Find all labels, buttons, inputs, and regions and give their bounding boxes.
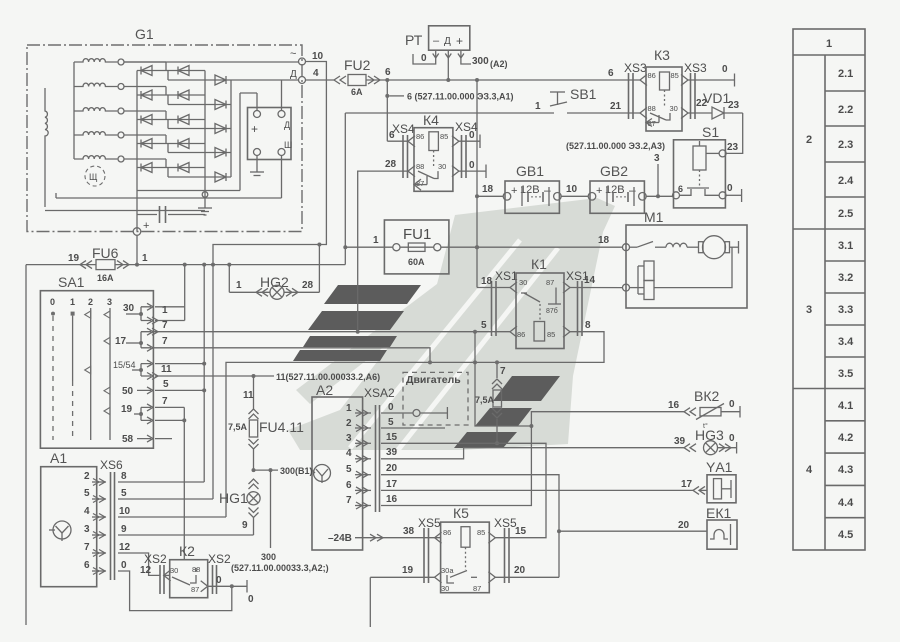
svg-text:Щ: Щ [89, 172, 98, 182]
svg-text:18: 18 [481, 276, 493, 287]
A1 row 3 [84, 524, 254, 539]
A1 row 4 [84, 506, 226, 521]
svg-text:12В: 12В [520, 184, 540, 196]
svg-text:4.4: 4.4 [838, 497, 854, 509]
svg-text:S1: S1 [702, 124, 719, 140]
svg-text:0: 0 [421, 53, 427, 64]
svg-text:10: 10 [566, 184, 578, 195]
svg-text:XS1: XS1 [495, 269, 518, 283]
svg-text:XSА2: XSА2 [364, 386, 395, 400]
stripe B1 [493, 376, 560, 401]
A2 row 4 [346, 447, 398, 462]
svg-text:XS2: XS2 [144, 552, 167, 566]
K4 86 wire [387, 130, 408, 141]
svg-text:–: – [629, 183, 636, 197]
svg-text:А1: А1 [50, 450, 67, 466]
svg-text:4: 4 [346, 448, 352, 459]
wire 39 row4 to HG3 [381, 436, 686, 459]
wire HG2 left branch [228, 265, 230, 293]
svg-text:6: 6 [389, 130, 395, 141]
svg-text:3.2: 3.2 [838, 272, 853, 284]
svg-text:19: 19 [121, 404, 133, 415]
svg-text:+: + [511, 185, 517, 197]
svg-text:К3: К3 [654, 47, 670, 63]
svg-text:87б: 87б [546, 307, 558, 315]
svg-text:Двигатель: Двигатель [406, 374, 461, 386]
svg-text:7: 7 [162, 336, 168, 347]
svg-text:12: 12 [140, 565, 152, 576]
svg-text:87: 87 [546, 278, 554, 287]
wire 300 down [231, 470, 329, 573]
svg-text:15: 15 [386, 432, 398, 443]
watermark stroke second [296, 281, 452, 404]
svg-text:85: 85 [440, 132, 448, 141]
A2 row 3 [346, 432, 398, 447]
svg-text:5: 5 [388, 417, 394, 428]
svg-text:20: 20 [386, 463, 398, 474]
svg-text:5: 5 [346, 464, 352, 475]
wire SA1-58 stub [155, 438, 172, 440]
svg-text:7: 7 [84, 542, 90, 553]
svg-text:6А: 6А [351, 87, 363, 97]
svg-text:30: 30 [170, 566, 178, 575]
svg-text:17: 17 [386, 479, 398, 490]
A2 row 5 [346, 463, 398, 478]
svg-text:А2: А2 [316, 382, 333, 398]
connector XS5 right [494, 516, 517, 583]
svg-text:2: 2 [346, 418, 352, 429]
G1 plus terminal [133, 220, 149, 235]
svg-text:20: 20 [678, 520, 690, 531]
svg-text:SB1: SB1 [570, 86, 597, 102]
svg-text:+: + [251, 122, 258, 136]
wire 19 to K5 [370, 565, 434, 627]
glow plug EK1 [706, 505, 737, 549]
svg-text:17: 17 [681, 479, 693, 490]
SA1 terminal 17 [115, 328, 158, 351]
svg-text:+: + [596, 185, 602, 197]
svg-text:7: 7 [162, 396, 168, 407]
node 300 B1 [252, 466, 313, 476]
wire VD1 to S1 [726, 113, 743, 153]
svg-text:2: 2 [806, 134, 812, 146]
connector XS3 right [684, 61, 707, 119]
svg-text:FU2: FU2 [344, 57, 371, 73]
K4 30 terminal [459, 160, 486, 178]
svg-text:85: 85 [547, 330, 555, 339]
svg-text:1: 1 [535, 101, 541, 112]
relay K4 [408, 112, 459, 191]
svg-text:HG1: HG1 [219, 490, 248, 506]
svg-text:5: 5 [481, 320, 487, 331]
G1 phase coil L4 [74, 132, 124, 138]
svg-text:6: 6 [385, 67, 391, 78]
svg-text:5: 5 [163, 379, 169, 390]
relay-regulator PT [405, 26, 508, 80]
svg-text:86: 86 [517, 330, 525, 339]
G1 phase coil L5 [74, 156, 124, 162]
svg-text:6: 6 [346, 480, 352, 491]
svg-text:XS6: XS6 [100, 458, 123, 472]
svg-text:0: 0 [729, 399, 735, 410]
svg-text:14: 14 [584, 275, 596, 286]
wire G1 plus to FU6 [135, 235, 139, 266]
svg-text:0: 0 [469, 130, 475, 141]
svg-text:0: 0 [50, 297, 55, 307]
wire SA1-19 to K2 coil [155, 396, 186, 560]
svg-text:6: 6 [608, 68, 614, 79]
A1 row 6 [84, 560, 232, 611]
wire 28 K4 to HG2 [356, 159, 408, 334]
svg-text:К5: К5 [453, 505, 469, 521]
G1 AC terminal node 10 [124, 48, 324, 65]
svg-text:XS5: XS5 [418, 516, 441, 530]
svg-text:XS3: XS3 [624, 61, 647, 75]
K1 85 wire node 8 loop [153, 320, 604, 517]
svg-text:39: 39 [386, 447, 398, 458]
svg-text:–: – [433, 35, 440, 47]
svg-text:30: 30 [438, 162, 446, 171]
svg-text:XS2: XS2 [208, 552, 231, 566]
svg-text:–: – [544, 183, 551, 197]
SA1 terminal 15-54 [113, 360, 158, 380]
svg-text:16: 16 [386, 494, 398, 505]
table row 1 [826, 38, 832, 50]
connector XS1 right [566, 269, 589, 336]
svg-text:86: 86 [416, 132, 424, 141]
svg-text:YА1: YА1 [706, 459, 733, 475]
svg-text:GB1: GB1 [516, 163, 544, 179]
A1 row 5 [84, 488, 213, 503]
svg-text:Д: Д [284, 120, 290, 130]
wire SB1 to battery node [343, 113, 347, 265]
push button SB1 [345, 86, 640, 113]
svg-text:15: 15 [515, 526, 527, 537]
svg-text:Д: Д [444, 36, 451, 47]
svg-text:87: 87 [473, 584, 481, 593]
svg-text:FU6: FU6 [92, 245, 119, 261]
svg-text:3: 3 [107, 297, 112, 307]
A2 row 6 [346, 479, 398, 494]
fuse 7.5A engine [475, 360, 506, 445]
connector XS4 left [392, 122, 415, 178]
svg-text:XS3: XS3 [684, 61, 707, 75]
svg-text:85: 85 [671, 71, 679, 80]
stripe A1 [324, 285, 421, 304]
svg-text:88: 88 [648, 104, 656, 113]
svg-text:К2: К2 [179, 543, 195, 559]
svg-text:4.3: 4.3 [838, 464, 853, 476]
stripe B3 [454, 432, 517, 448]
svg-text:17: 17 [115, 336, 127, 347]
svg-text:0: 0 [216, 575, 222, 586]
svg-text:6: 6 [84, 560, 90, 571]
svg-text:38: 38 [403, 526, 415, 537]
svg-text:0: 0 [248, 594, 254, 605]
svg-text:4.1: 4.1 [838, 400, 853, 412]
ignition switch SA1 [40, 274, 153, 448]
svg-text:7: 7 [162, 320, 168, 331]
svg-text:XS4: XS4 [392, 122, 415, 136]
svg-text:0: 0 [388, 402, 394, 413]
lamp HG2 [229, 274, 319, 299]
wire battery feed 18 [475, 80, 503, 288]
G1 stator bus [73, 62, 75, 159]
K1 86 wire node 5 [153, 320, 510, 334]
connector XS4 right [455, 120, 478, 178]
fuse FU2 [306, 57, 392, 97]
svg-text:3.4: 3.4 [838, 336, 854, 348]
svg-text:11: 11 [243, 390, 254, 401]
SA1 terminal 30 [123, 303, 158, 324]
G1 diodes middle column [178, 66, 189, 173]
connector XS2 left [144, 552, 167, 594]
svg-text:9: 9 [121, 524, 127, 535]
solenoid YA1 [693, 459, 736, 503]
svg-text:86: 86 [443, 528, 451, 537]
svg-text:19: 19 [402, 565, 414, 576]
svg-text:4: 4 [84, 506, 90, 517]
wire 16 row7 to BK2 [381, 400, 684, 506]
svg-text:2: 2 [84, 471, 90, 482]
svg-text:HG2: HG2 [260, 274, 289, 290]
svg-text:К4: К4 [423, 112, 439, 128]
svg-text:6: 6 [678, 184, 683, 194]
A2 row 7 [346, 494, 398, 509]
svg-text:3.3: 3.3 [838, 304, 853, 316]
wire SA1-30 ring to net1 [155, 265, 185, 321]
G1 phase coil L2 [74, 83, 124, 89]
svg-text:9: 9 [242, 520, 248, 531]
svg-text:–24В: –24В [328, 533, 352, 544]
svg-text:(527.11.00.000 ЭЗ.2,А3): (527.11.00.000 ЭЗ.2,А3) [566, 141, 665, 151]
svg-text:2.3: 2.3 [838, 139, 853, 151]
svg-text:4: 4 [313, 68, 319, 79]
vertical net to A1 row8 [202, 265, 206, 482]
svg-text:30: 30 [123, 303, 135, 314]
net 3 callout [566, 141, 665, 198]
svg-text:M1: M1 [644, 209, 664, 225]
fuse FU1 [345, 220, 449, 274]
svg-text:~: ~ [290, 48, 296, 60]
wire GB2 to S1 [646, 195, 672, 197]
svg-text:60А: 60А [408, 257, 425, 267]
svg-text:11(527.11.00.00033.2,А6): 11(527.11.00.00033.2,А6) [276, 372, 380, 382]
svg-text:10: 10 [119, 506, 131, 517]
svg-text:(А2): (А2) [490, 59, 508, 69]
connector XSA2 [376, 405, 380, 512]
G1 ground [198, 191, 212, 215]
svg-text:0: 0 [121, 560, 127, 571]
svg-text:1: 1 [346, 403, 352, 414]
sensor BK2 [684, 388, 740, 430]
svg-text:20: 20 [514, 565, 526, 576]
net 6 callout [385, 80, 513, 141]
battery GB1 [503, 163, 561, 213]
svg-text:10: 10 [312, 51, 324, 62]
G1 phase coil L1 [74, 59, 124, 65]
G1 capacitor [137, 206, 205, 223]
svg-text:3: 3 [84, 524, 90, 535]
svg-text:Ш: Ш [284, 140, 292, 150]
svg-text:28: 28 [302, 280, 314, 291]
relay K2 [164, 543, 208, 598]
svg-text:87: 87 [191, 585, 199, 594]
svg-text:18: 18 [598, 235, 610, 246]
wire GB1 to GB2 [561, 184, 588, 196]
svg-text:86: 86 [648, 71, 656, 80]
svg-text:7,5А: 7,5А [228, 422, 248, 432]
lamp HG3 [684, 427, 737, 455]
svg-text:300: 300 [261, 552, 276, 562]
generator G1 [27, 26, 302, 232]
diode VD1 [688, 90, 743, 119]
unit A1 [41, 450, 97, 587]
wire net 10 loop [211, 62, 326, 500]
svg-text:15/54: 15/54 [113, 360, 136, 370]
connector XS1 left [492, 269, 519, 336]
svg-text:8: 8 [121, 471, 127, 482]
wire 11 [155, 364, 380, 382]
unit A2 [312, 382, 395, 550]
svg-text:1: 1 [236, 280, 242, 291]
watermark main mass [288, 198, 615, 450]
connector XS6 [100, 458, 123, 580]
svg-text:16А: 16А [97, 273, 114, 283]
wire A2 row2 stub [381, 427, 445, 429]
svg-text:23: 23 [727, 142, 739, 153]
svg-text:58: 58 [122, 434, 134, 445]
G1 phase coil L3 [74, 108, 124, 114]
svg-text:0: 0 [727, 183, 733, 194]
svg-text:4.5: 4.5 [838, 529, 853, 541]
svg-text:50: 50 [122, 386, 134, 397]
svg-text:Д: Д [290, 69, 297, 80]
svg-text:30: 30 [519, 278, 527, 287]
SA1 terminal 58 [122, 434, 153, 445]
A1 internal symbol [49, 521, 71, 541]
svg-text:300: 300 [472, 56, 489, 67]
K1 87 wire to M1 [570, 275, 623, 288]
svg-text:7,5А: 7,5А [475, 395, 495, 405]
svg-text:16: 16 [668, 400, 680, 411]
svg-text:12: 12 [119, 542, 131, 553]
svg-text:2.1: 2.1 [838, 68, 853, 80]
svg-text:ЕК1: ЕК1 [706, 505, 731, 521]
svg-text:2.2: 2.2 [838, 104, 853, 116]
G1 brush symbol [85, 166, 105, 186]
wire K5 87 out [495, 531, 559, 577]
table section 2 [793, 68, 865, 229]
lamp HG1 [219, 479, 260, 535]
wire main top bus [366, 68, 640, 82]
svg-text:GB2: GB2 [600, 163, 628, 179]
engine dashed box [403, 372, 468, 425]
svg-text:30а: 30а [441, 566, 454, 575]
wire K1 branch down [475, 332, 533, 428]
wire 17 row6 to YA1 [381, 479, 693, 490]
A2 row 2 [346, 417, 394, 432]
svg-text:18: 18 [482, 184, 494, 195]
svg-text:3: 3 [346, 433, 352, 444]
contactor S1 [673, 124, 739, 208]
svg-text:2.4: 2.4 [838, 175, 854, 187]
wire SA1-15/54 upper [155, 363, 204, 365]
wire A2 row1 to engine [381, 407, 447, 419]
svg-text:3.5: 3.5 [838, 368, 853, 380]
svg-text:4.2: 4.2 [838, 432, 853, 444]
connector XS3 left [624, 61, 647, 119]
svg-text:12В: 12В [605, 184, 625, 196]
svg-text:+: + [456, 34, 463, 48]
relay K1 [510, 256, 570, 349]
svg-text:SA1: SA1 [58, 274, 85, 290]
SA1 terminal 19 [121, 404, 153, 424]
svg-text:2.5: 2.5 [838, 208, 853, 220]
relay K5 [435, 505, 496, 593]
svg-text:7: 7 [346, 495, 352, 506]
svg-text:7: 7 [500, 366, 506, 377]
svg-text:19: 19 [68, 253, 80, 264]
svg-text:0: 0 [722, 64, 728, 75]
A2 internal symbol [310, 465, 331, 484]
table section 4 [806, 400, 865, 541]
K3 85 terminal [688, 64, 735, 87]
svg-text:G1: G1 [135, 26, 154, 42]
svg-text:+: + [143, 220, 149, 232]
wire SA1-50 node 5 [155, 379, 204, 390]
svg-text:РТ: РТ [405, 32, 423, 48]
A1 row 7 [84, 542, 160, 576]
K2 87 output [208, 575, 254, 605]
svg-text:5: 5 [121, 488, 127, 499]
svg-text:23: 23 [728, 100, 740, 111]
G1 field winding [45, 88, 48, 207]
A2 row 1 [346, 402, 394, 417]
svg-text:XS5: XS5 [494, 516, 517, 530]
battery GB2 [588, 163, 646, 213]
G1 diodes positive column [215, 75, 226, 182]
stripe A3 [303, 336, 397, 347]
wire 20 row5 to EK1 [381, 475, 707, 534]
svg-text:FU4.11: FU4.11 [259, 419, 304, 435]
svg-text:8: 8 [585, 320, 591, 331]
left bus wire [25, 265, 27, 625]
svg-text:6 (527.11.00.000 ЭЗ.3,А1): 6 (527.11.00.000 ЭЗ.3,А1) [407, 92, 514, 102]
G1 rectifier rows wires [124, 62, 231, 232]
fuse FU4.11 [228, 376, 304, 470]
svg-text:1: 1 [162, 305, 168, 316]
svg-text:3: 3 [654, 153, 660, 164]
wire 15 row3 to K5 [381, 443, 546, 537]
connector XS5 left [418, 516, 441, 583]
svg-text:11: 11 [161, 364, 172, 375]
K4 85 terminal [459, 130, 480, 148]
svg-text:3.1: 3.1 [838, 240, 853, 252]
svg-text:FU1: FU1 [403, 226, 431, 243]
G1 bottom wires [45, 191, 282, 211]
table section 3 [793, 240, 865, 389]
SA1 terminal 50 [122, 386, 153, 397]
K1 30 wire [477, 276, 510, 288]
svg-text:85: 85 [477, 528, 485, 537]
svg-text:39: 39 [674, 436, 686, 447]
svg-text:30: 30 [441, 584, 449, 593]
svg-text:1: 1 [826, 38, 832, 50]
svg-text:5: 5 [84, 488, 90, 499]
svg-text:0: 0 [729, 433, 735, 444]
svg-text:1: 1 [373, 235, 379, 246]
